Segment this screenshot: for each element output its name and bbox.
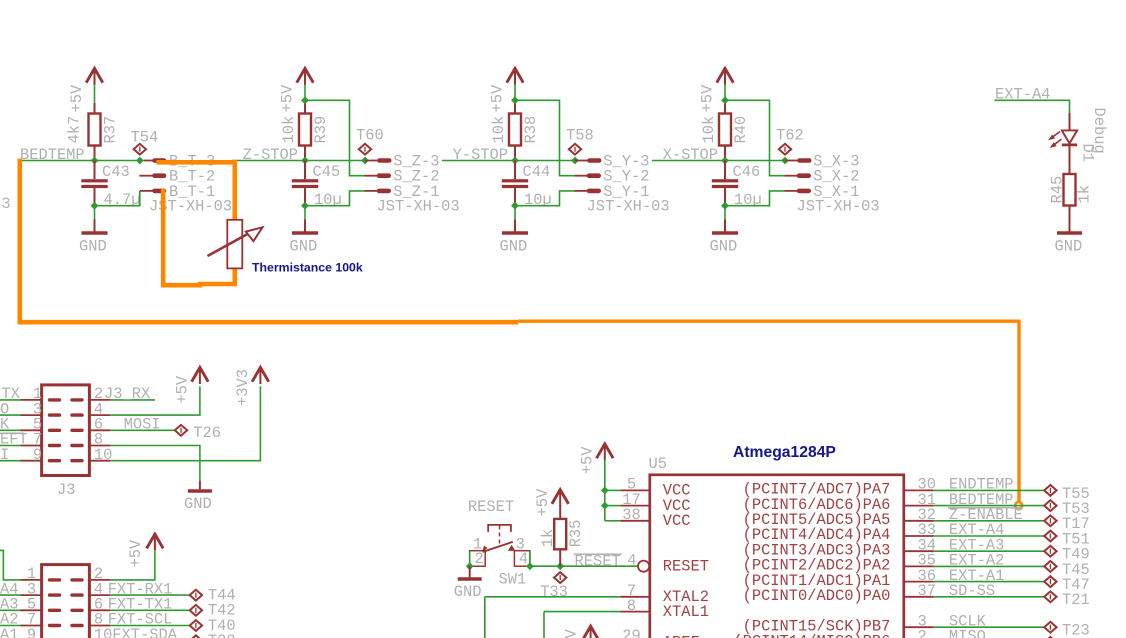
wire +5V to pin 2 bbox=[725, 100, 785, 175]
connector pin S_X-2 bbox=[785, 175, 799, 177]
thermistor body (Thermistance 100k) bbox=[227, 220, 242, 269]
svg-text:U5: U5 bbox=[649, 455, 667, 473]
+5V supply arrow (BEDTEMP block) bbox=[86, 68, 103, 82]
wire into pin 1 bbox=[0, 550, 21, 580]
connector pin B_T-1 bbox=[140, 190, 154, 192]
switch SW1 lever bbox=[483, 542, 513, 552]
connector pin S_X-1 bbox=[785, 190, 799, 192]
switch SW1 pin boxes bbox=[470, 551, 486, 567]
resistor R39 10k bbox=[299, 114, 311, 146]
svg-text:2: 2 bbox=[475, 550, 484, 568]
svg-text:J3: J3 bbox=[57, 481, 75, 499]
svg-text:10k: 10k bbox=[280, 116, 298, 144]
pin 31 BEDTEMP bbox=[904, 505, 934, 507]
test point T40 bbox=[190, 620, 202, 631]
svg-text:Thermistance 100k: Thermistance 100k bbox=[252, 261, 363, 275]
pin 36 EXT-A1 bbox=[904, 581, 934, 583]
svg-text:+5V: +5V bbox=[127, 539, 145, 567]
resistor R38 10k bbox=[509, 114, 521, 146]
svg-text:C43: C43 bbox=[102, 163, 130, 181]
node junction X-STOP bbox=[721, 157, 729, 165]
net RESET wire bbox=[530, 565, 638, 567]
pin 33 EXT-A4 bbox=[904, 535, 934, 537]
svg-text:AREF: AREF bbox=[663, 634, 700, 638]
FXT header pin pads row 1 bbox=[50, 578, 60, 581]
svg-text:MOSI: MOSI bbox=[124, 416, 161, 434]
svg-text:+5V: +5V bbox=[174, 375, 192, 403]
wire pin10 to +3V3 bbox=[110, 386, 260, 460]
wire pin2 to +5V bbox=[110, 551, 155, 580]
FXT header left wires bbox=[0, 594, 21, 596]
+5V arrow (FXT header) bbox=[147, 534, 164, 548]
svg-text:9: 9 bbox=[27, 626, 36, 638]
ground symbol (J3) bbox=[199, 481, 201, 489]
svg-text:2: 2 bbox=[918, 628, 927, 638]
+5V supply arrow (Z-STOP block) bbox=[297, 68, 314, 82]
svg-text:VCC: VCC bbox=[663, 512, 691, 530]
test point junction T62 bbox=[781, 157, 789, 165]
svg-text:C45: C45 bbox=[313, 163, 341, 181]
+5V arrow (U5 VCC) bbox=[597, 444, 614, 458]
svg-text:1k: 1k bbox=[1075, 185, 1093, 203]
FXT header pin pads row 3 bbox=[50, 609, 60, 612]
capacitor C44 bbox=[514, 161, 516, 180]
svg-text:T54: T54 bbox=[131, 129, 159, 147]
pin 5 VCC bbox=[605, 489, 621, 491]
svg-text:RESET: RESET bbox=[663, 557, 709, 575]
svg-text:+5V: +5V bbox=[489, 84, 507, 112]
highlight wire end marker bbox=[1015, 502, 1022, 509]
svg-text:JST-XH-03: JST-XH-03 bbox=[797, 198, 880, 216]
svg-text:T60: T60 bbox=[356, 127, 384, 145]
svg-text:C46: C46 bbox=[733, 163, 761, 181]
resistor R45 1k bbox=[1064, 174, 1076, 206]
svg-text:T33: T33 bbox=[540, 583, 568, 601]
highlight wire thermistor to B_T-1 bbox=[163, 189, 235, 285]
pin 32 Z-ENABLE bbox=[904, 520, 934, 522]
capacitor C43 bbox=[94, 161, 96, 180]
test point T49 bbox=[1044, 546, 1056, 557]
test point T44 bbox=[190, 590, 202, 601]
wire bottom node to pin 1 bbox=[515, 191, 575, 206]
pin 35 EXT-A2 bbox=[904, 565, 934, 567]
test point junction T60 bbox=[361, 157, 369, 165]
svg-text:37: 37 bbox=[918, 582, 936, 600]
FXT header left pin stubs bbox=[21, 579, 42, 581]
ground symbol bbox=[514, 206, 516, 220]
FXT header right pin stubs bbox=[89, 579, 110, 581]
J3 pin pads row 3 bbox=[50, 429, 60, 432]
net MOSI (pin 6) bbox=[110, 429, 175, 431]
resistor R37 4k7 bbox=[89, 114, 101, 146]
svg-text:SW1: SW1 bbox=[499, 571, 527, 589]
pin 7 XTAL2 bbox=[485, 596, 621, 598]
LED emission arrows bbox=[1051, 132, 1060, 139]
FXT header pin pads row 2 bbox=[50, 593, 60, 596]
wire net Y-STOP bbox=[442, 160, 575, 162]
thermistor adjust arrow bbox=[208, 231, 254, 256]
bottom node junction bbox=[301, 202, 309, 210]
svg-text:R35: R35 bbox=[567, 520, 585, 548]
resistor R35 1k bbox=[559, 505, 561, 519]
connector J3 body bbox=[42, 385, 90, 476]
FXT header pin pads row 4 bbox=[50, 624, 60, 627]
J3 left pin stubs bbox=[21, 399, 42, 401]
wire XTAL2 down bbox=[484, 597, 486, 638]
switch SW1 net sides bbox=[469, 550, 471, 566]
svg-text:4k7: 4k7 bbox=[66, 116, 84, 144]
svg-text:+5V: +5V bbox=[579, 446, 597, 474]
+5V arrow (J3) bbox=[192, 367, 209, 381]
svg-text:RESET: RESET bbox=[468, 498, 514, 516]
connector body (FXT header) bbox=[42, 565, 90, 638]
svg-text:T58: T58 bbox=[566, 127, 594, 145]
+5V supply arrow (X-STOP block) bbox=[717, 68, 734, 82]
svg-text:T26: T26 bbox=[193, 424, 221, 442]
svg-text:29: 29 bbox=[622, 627, 640, 638]
svg-text:T23: T23 bbox=[1062, 622, 1090, 638]
junction below +5V bbox=[721, 96, 729, 104]
test point T17 bbox=[1044, 515, 1056, 526]
test point T21 bbox=[1044, 591, 1056, 602]
svg-text:SD-SS: SD-SS bbox=[949, 582, 995, 600]
highlight wire BEDTEMP to U5 pin 31 bbox=[20, 159, 518, 323]
junction R35/RESET bbox=[556, 562, 564, 570]
ground symbol (EXT-A4) bbox=[1057, 231, 1082, 235]
svg-text:R40: R40 bbox=[732, 116, 750, 144]
svg-text:C44: C44 bbox=[523, 163, 551, 181]
wire resistor to node / net X-STOP bbox=[724, 146, 726, 161]
+3V3 arrow bbox=[252, 367, 269, 381]
wire net X-STOP bbox=[652, 160, 785, 162]
svg-text:R37: R37 bbox=[102, 116, 120, 144]
test point T26 bbox=[175, 425, 187, 436]
connector pin S_Z-2 bbox=[365, 175, 379, 177]
J3 pin pads row 1 bbox=[50, 398, 60, 401]
wire bottom node to pin 1 bbox=[305, 191, 365, 206]
svg-text:GND: GND bbox=[79, 238, 107, 256]
wire resistor to node / net Y-STOP bbox=[514, 146, 516, 161]
node junction Z-STOP bbox=[301, 157, 309, 165]
svg-text:+5V: +5V bbox=[68, 84, 86, 112]
test point T33 bbox=[554, 572, 566, 583]
svg-text:+5V: +5V bbox=[562, 629, 580, 638]
connector pin S_X-3 bbox=[785, 160, 799, 162]
svg-text:R39: R39 bbox=[312, 116, 330, 144]
test point T60 bbox=[359, 144, 371, 155]
junction at SW1 pin 2 bbox=[466, 562, 474, 570]
test point T54 bbox=[134, 144, 146, 155]
svg-text:+5V: +5V bbox=[699, 84, 717, 112]
wire bottom node to pin 1 bbox=[725, 191, 785, 206]
test point T55 bbox=[1044, 485, 1056, 496]
test point (bottom, clipped) bbox=[1044, 637, 1056, 638]
node junction BEDTEMP bbox=[91, 157, 99, 165]
svg-text:(PCINT0/ADC0)PA0: (PCINT0/ADC0)PA0 bbox=[743, 587, 891, 605]
wire R45 to ground bbox=[1069, 206, 1071, 232]
svg-text:8: 8 bbox=[627, 597, 636, 615]
svg-text:+5V: +5V bbox=[534, 488, 552, 516]
svg-text:JST-XH-03: JST-XH-03 bbox=[587, 198, 670, 216]
+5V arrow (R35) bbox=[552, 490, 569, 504]
bottom node junction bbox=[91, 202, 99, 210]
junction below +5V bbox=[301, 96, 309, 104]
svg-text:GND: GND bbox=[500, 238, 528, 256]
pin 3 SCLK bbox=[904, 626, 934, 628]
J3 pin pads row 5 bbox=[50, 459, 60, 462]
svg-text:GND: GND bbox=[290, 238, 318, 256]
wire +5V to resistor R37 bbox=[94, 84, 96, 103]
svg-text:1k: 1k bbox=[539, 529, 557, 547]
test point T58 bbox=[569, 144, 581, 155]
connector pin S_Y-2 bbox=[575, 175, 589, 177]
net FXT-RX1 bbox=[110, 594, 190, 596]
wire +5V to pin 2 bbox=[305, 100, 365, 175]
test point junction T58 bbox=[571, 157, 579, 165]
svg-text:T62: T62 bbox=[776, 127, 804, 145]
connector pin S_Z-1 bbox=[365, 190, 379, 192]
svg-text:R45: R45 bbox=[1049, 176, 1067, 204]
ground symbol (SW1) bbox=[469, 566, 471, 577]
capacitor C45 bbox=[304, 161, 306, 180]
junction VCC pin 5 bbox=[601, 487, 609, 495]
net FXT-SCL bbox=[110, 625, 190, 627]
svg-text:3: 3 bbox=[1, 195, 10, 213]
wire EXT-A4 to LED D1 bbox=[995, 100, 1070, 115]
capacitor C46 bbox=[724, 161, 726, 180]
svg-text:Debug: Debug bbox=[1090, 108, 1108, 154]
ground symbol bbox=[94, 206, 96, 220]
J3 left wires bbox=[0, 399, 21, 401]
svg-text:4: 4 bbox=[627, 552, 636, 570]
pin 17 VCC bbox=[605, 505, 621, 507]
switch SW1 actuator bracket bbox=[488, 525, 511, 532]
svg-text:GND: GND bbox=[184, 495, 212, 513]
svg-text:A1: A1 bbox=[0, 626, 18, 638]
svg-text:GND: GND bbox=[710, 238, 738, 256]
test point T23 bbox=[1044, 622, 1056, 633]
wire resistor to node / net Z-STOP bbox=[304, 146, 306, 161]
bottom node junction bbox=[511, 202, 519, 210]
LED D1 bbox=[1069, 113, 1071, 130]
J3 pin pads row 2 bbox=[50, 413, 60, 416]
junction below +5V bbox=[511, 96, 519, 104]
J3 pin pads row 4 bbox=[50, 444, 60, 447]
svg-text:9: 9 bbox=[33, 446, 42, 464]
ground symbol bbox=[304, 206, 306, 220]
svg-text:XTAL1: XTAL1 bbox=[663, 603, 709, 621]
svg-text:R38: R38 bbox=[522, 116, 540, 144]
+5V arrow (AREF) bbox=[582, 626, 599, 638]
svg-text:I: I bbox=[0, 446, 9, 464]
wire net BEDTEMP bbox=[18, 160, 140, 162]
svg-text:FXT-SDA: FXT-SDA bbox=[112, 626, 177, 638]
node junction Y-STOP bbox=[511, 157, 519, 165]
pin 34 EXT-A3 bbox=[904, 550, 934, 552]
junction VCC pin 17 bbox=[601, 502, 609, 510]
svg-text:38: 38 bbox=[622, 506, 640, 524]
svg-text:+5V: +5V bbox=[279, 84, 297, 112]
connector pin S_Y-3 bbox=[575, 160, 589, 162]
connector pin B_T-3 bbox=[144, 160, 154, 162]
pin 30 ENDTEMP bbox=[904, 489, 934, 491]
connector pin S_Y-1 bbox=[575, 190, 589, 192]
resistor R40 10k bbox=[719, 114, 731, 146]
wire pin8 to ground bbox=[110, 446, 200, 482]
test point T53 bbox=[1044, 500, 1056, 511]
pin 4 RESET bubble bbox=[638, 561, 649, 572]
svg-text:GND: GND bbox=[1055, 238, 1083, 256]
pin 37 SD-SS bbox=[904, 596, 934, 598]
wire XTAL1 down bbox=[543, 612, 545, 638]
test point T38 bbox=[190, 635, 202, 638]
+5V supply arrow (Y-STOP block) bbox=[507, 68, 524, 82]
wire resistor R37 to node bbox=[94, 146, 96, 161]
pin 8 XTAL1 bbox=[544, 611, 620, 613]
wire +5V to resistor bbox=[724, 84, 726, 102]
wire +5V to VCC pins bbox=[604, 460, 606, 521]
J3 right pin stubs bbox=[89, 399, 110, 401]
test point T45 bbox=[1044, 561, 1056, 572]
connector pin B_T-2 (n.c.) bbox=[139, 175, 153, 177]
wire +5V to resistor bbox=[514, 84, 516, 102]
svg-text:10k: 10k bbox=[490, 116, 508, 144]
svg-text:GND: GND bbox=[454, 583, 482, 601]
bottom node junction bbox=[721, 202, 729, 210]
wire +5V to pin 2 bbox=[515, 100, 575, 175]
svg-text:T38: T38 bbox=[208, 632, 236, 638]
svg-text:RESET: RESET bbox=[575, 552, 621, 570]
ground symbol bbox=[724, 206, 726, 220]
test point T62 bbox=[779, 144, 791, 155]
test point T51 bbox=[1044, 531, 1056, 542]
svg-text:Atmega1284P: Atmega1284P bbox=[733, 444, 836, 461]
net FXT-TX1 bbox=[110, 609, 190, 611]
test point junction T54 bbox=[136, 157, 144, 165]
wire net Z-STOP bbox=[232, 160, 365, 162]
svg-text:MISO: MISO bbox=[949, 628, 986, 638]
svg-text:10: 10 bbox=[94, 446, 112, 464]
svg-text:J3_RX: J3_RX bbox=[104, 385, 150, 403]
svg-text:10k: 10k bbox=[700, 116, 718, 144]
test point T47 bbox=[1044, 576, 1056, 587]
connector pin S_Z-3 bbox=[365, 160, 379, 162]
wire pin4 to +5V bbox=[110, 386, 200, 415]
test point T42 bbox=[190, 605, 202, 616]
highlight wire B_T-3 to thermistor bbox=[157, 162, 235, 220]
svg-text:(PCINT14/MISO)PB6: (PCINT14/MISO)PB6 bbox=[733, 633, 890, 638]
wire bottom node to pin B_T-1 bbox=[95, 191, 140, 206]
net J3_RX (pin 2) bbox=[110, 399, 155, 401]
svg-text:JST-XH-03: JST-XH-03 bbox=[377, 198, 460, 216]
svg-text:T21: T21 bbox=[1062, 591, 1090, 609]
junction at SW1 pin 4 bbox=[526, 562, 534, 570]
wire +5V to resistor bbox=[304, 84, 306, 102]
pin 38 VCC bbox=[605, 520, 621, 522]
svg-text:+3V3: +3V3 bbox=[234, 369, 252, 406]
IC U5 body bbox=[650, 475, 904, 638]
